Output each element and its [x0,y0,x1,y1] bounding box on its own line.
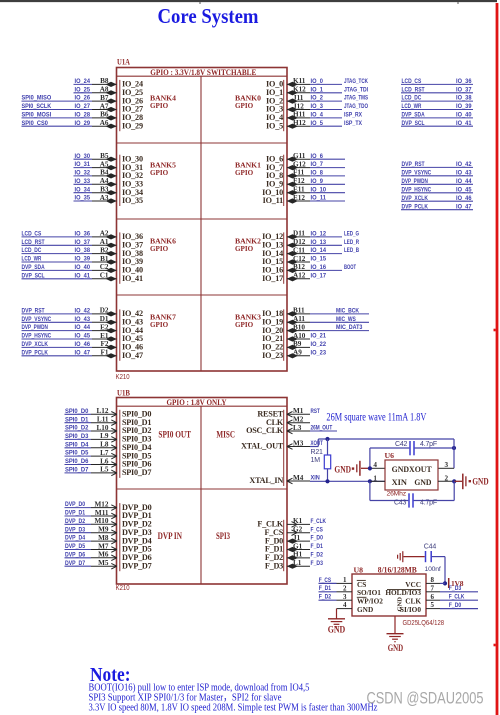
svg-text:L6: L6 [100,457,109,465]
svg-text:A11: A11 [293,315,305,323]
svg-text:M1: M1 [293,407,304,415]
svg-text:BANK4: BANK4 [150,94,176,102]
svg-text:M3: M3 [293,439,304,447]
svg-text:U8: U8 [354,566,364,575]
svg-text:DVP IN: DVP IN [158,531,183,541]
svg-text:B10: B10 [293,323,305,331]
svg-text:DVP_PCLK: DVP_PCLK [22,349,49,356]
svg-text:100nf: 100nf [425,566,441,573]
svg-text:U1B: U1B [117,389,131,398]
svg-text:IO_47: IO_47 [75,349,91,356]
svg-text:IO_38: IO_38 [456,95,472,102]
svg-text:B7: B7 [100,94,109,102]
svg-text:4: 4 [373,461,377,469]
svg-text:GND: GND [414,477,431,487]
svg-text:DVP_RST: DVP_RST [402,161,426,168]
svg-text:R21: R21 [311,449,324,456]
svg-text:F_D1: F_D1 [319,585,332,592]
svg-text:MIC_DAT3: MIC_DAT3 [336,324,363,331]
svg-text:B6: B6 [100,111,109,119]
svg-text:IO_37: IO_37 [456,86,472,93]
svg-text:L5: L5 [100,466,109,474]
svg-text:E12: E12 [293,194,305,202]
svg-text:RST: RST [311,408,321,415]
svg-text:1M: 1M [311,457,321,464]
svg-text:J11: J11 [293,94,304,102]
svg-text:B11: B11 [293,307,305,315]
svg-text:DVP_D5: DVP_D5 [65,543,85,550]
svg-text:IO_41: IO_41 [75,272,91,279]
svg-text:IO_17: IO_17 [311,272,327,279]
svg-text:LCD_DC: LCD_DC [402,95,422,102]
svg-text:LCD_RST: LCD_RST [22,239,46,246]
svg-text:IO_29: IO_29 [75,120,91,127]
svg-text:L9: L9 [100,432,109,440]
svg-text:GPIO: GPIO [150,102,169,110]
svg-text:IO_46: IO_46 [456,195,472,202]
svg-text:A5: A5 [100,160,109,168]
svg-text:DVP_SCL: DVP_SCL [22,272,45,279]
svg-text:J12: J12 [293,102,304,110]
svg-text:IO_37: IO_37 [75,239,91,246]
svg-text:IO_47: IO_47 [122,351,143,360]
svg-text:DVP_HSYNC: DVP_HSYNC [402,186,432,193]
svg-text:DVP_PWDN: DVP_PWDN [22,324,49,331]
svg-text:G11: G11 [293,152,306,160]
svg-text:4.7pF: 4.7pF [420,500,437,507]
svg-text:K11: K11 [293,77,306,85]
svg-text:IO_40: IO_40 [456,112,472,119]
svg-text:GPIO: GPIO [150,321,169,329]
svg-text:LCD_DC: LCD_DC [22,247,42,254]
svg-text:26M square wave 11mA 1.8V: 26M square wave 11mA 1.8V [326,412,427,424]
svg-text:IO_21: IO_21 [311,333,327,340]
svg-text:BANK2: BANK2 [235,237,261,245]
svg-text:A1: A1 [100,238,109,246]
svg-text:K210: K210 [116,374,130,381]
svg-text:F_D3: F_D3 [311,560,324,567]
svg-text:A12: A12 [293,272,306,280]
svg-text:DVP_PCLK: DVP_PCLK [402,203,429,210]
svg-text:C43: C43 [394,500,407,507]
svg-text:BANK0: BANK0 [235,94,261,102]
svg-text:JTAG_TDO: JTAG_TDO [344,103,368,110]
svg-text:B4: B4 [100,169,109,177]
svg-text:DVP_D7: DVP_D7 [122,561,152,570]
svg-text:C1: C1 [100,272,109,280]
svg-text:B5: B5 [100,152,109,160]
svg-text:G2: G2 [293,526,303,534]
svg-text:IO_31: IO_31 [75,161,91,168]
svg-text:L7: L7 [100,449,109,457]
svg-text:IO_17: IO_17 [262,274,283,283]
svg-text:IO_43: IO_43 [75,316,91,323]
svg-text:M2: M2 [293,416,304,424]
svg-text:IO_24: IO_24 [75,78,91,85]
svg-text:2: 2 [343,584,347,592]
svg-text:GND: GND [397,597,404,612]
svg-text:BANK1: BANK1 [235,161,261,169]
svg-text:IO_30: IO_30 [75,153,91,160]
svg-text:IO_35: IO_35 [75,195,91,202]
svg-text:IO_15: IO_15 [311,256,327,263]
svg-text:IO_39: IO_39 [456,103,472,110]
svg-text:SPI0_D6: SPI0_D6 [65,458,89,465]
svg-text:GPIO : 1.8V ONLY: GPIO : 1.8V ONLY [167,398,227,407]
svg-text:IO_41: IO_41 [122,274,143,283]
svg-text:IO_5: IO_5 [266,121,283,130]
svg-text:DVP_D7: DVP_D7 [65,560,85,567]
svg-text:F_CLK: F_CLK [449,594,465,601]
svg-text:DVP_VSYNC: DVP_VSYNC [402,169,432,176]
svg-text:G12: G12 [293,160,306,168]
svg-text:F_CLK: F_CLK [311,518,327,525]
svg-text:1: 1 [343,576,347,584]
svg-text:DVP_SDA: DVP_SDA [22,264,45,271]
svg-text:IO_27: IO_27 [75,103,91,110]
svg-text:D12: D12 [293,238,306,246]
svg-text:IO_40: IO_40 [75,264,91,271]
svg-text:E11: E11 [293,186,305,194]
svg-text:IO_23: IO_23 [262,351,283,360]
svg-text:IO_43: IO_43 [456,169,472,176]
svg-text:IO_36: IO_36 [75,231,91,238]
svg-text:IO_11: IO_11 [263,196,283,205]
svg-text:SPI0_D7: SPI0_D7 [65,467,89,474]
svg-text:JTAG_TCK: JTAG_TCK [344,78,368,85]
svg-text:DVP_XCLK: DVP_XCLK [402,195,429,202]
svg-text:GPIO: GPIO [150,169,169,177]
svg-text:GND: GND [472,477,488,487]
svg-text:B2: B2 [100,246,109,254]
svg-text:K1: K1 [293,517,303,525]
svg-text:SPI0_D4: SPI0_D4 [65,441,89,448]
svg-text:M9: M9 [98,526,109,534]
svg-text:IO_33: IO_33 [75,178,91,185]
svg-text:DVP_D2: DVP_D2 [65,518,85,525]
svg-text:M8: M8 [98,534,109,542]
svg-text:BANK7: BANK7 [150,313,176,321]
svg-text:F_CS: F_CS [319,577,332,584]
svg-text:SPI0_D7: SPI0_D7 [122,468,151,477]
svg-text:XIN: XIN [311,475,320,482]
svg-text:C11: C11 [293,246,305,254]
svg-text:F_D2: F_D2 [319,594,332,601]
svg-text:MIC_BCK: MIC_BCK [336,308,359,315]
svg-text:A9: A9 [293,349,302,357]
svg-text:SPI0_D2: SPI0_D2 [65,425,89,432]
svg-text:BOOT: BOOT [344,264,357,271]
svg-text:8/16/128MB: 8/16/128MB [378,565,417,575]
svg-text:XIN: XIN [392,477,408,487]
svg-text:BANK5: BANK5 [150,161,176,169]
svg-text:B3: B3 [100,186,109,194]
svg-text:5: 5 [431,601,435,609]
svg-text:IO_28: IO_28 [75,112,91,119]
svg-text:DVP_SCL: DVP_SCL [402,120,425,127]
svg-text:D11: D11 [293,230,305,238]
svg-text:IO_44: IO_44 [456,178,472,185]
svg-text:M4: M4 [293,474,304,482]
svg-text:IO_22: IO_22 [311,341,327,348]
svg-text:L3: L3 [293,424,302,432]
svg-text:4: 4 [343,601,347,609]
svg-text:K210: K210 [116,585,130,592]
svg-text:LCD_CS: LCD_CS [402,78,422,85]
svg-text:H11: H11 [293,111,306,119]
svg-text:GPIO: GPIO [150,245,169,253]
svg-text:F_D3: F_D3 [265,561,283,570]
svg-text:3: 3 [343,593,347,601]
svg-text:M10: M10 [95,517,109,525]
svg-text:F_D2: F_D2 [311,552,324,559]
svg-text:L8: L8 [100,441,109,449]
svg-text:DVP_HSYNC: DVP_HSYNC [22,333,52,340]
svg-text:F11: F11 [293,169,305,177]
svg-text:L11: L11 [97,416,109,424]
svg-text:SPI0_CS0: SPI0_CS0 [22,120,49,127]
svg-text:IO_46: IO_46 [75,341,91,348]
svg-text:DVP_D3: DVP_D3 [65,526,85,533]
svg-text:B1: B1 [100,255,109,263]
svg-text:GND: GND [334,465,351,475]
svg-text:GPIO: GPIO [235,245,254,253]
svg-text:L12: L12 [97,407,109,415]
svg-text:BANK3: BANK3 [235,313,261,321]
svg-text:A6: A6 [100,119,109,127]
svg-text:SPI0_D5: SPI0_D5 [65,450,89,457]
svg-text:B12: B12 [293,263,305,271]
svg-text:IO_35: IO_35 [122,196,143,205]
svg-text:ISP_RX: ISP_RX [344,112,362,119]
svg-text:GPIO : 3.3V/1.8V SWITCHABLE: GPIO : 3.3V/1.8V SWITCHABLE [150,68,256,77]
svg-text:DVP_D1: DVP_D1 [65,510,85,517]
svg-text:JTAG_TMS: JTAG_TMS [344,95,368,102]
svg-text:G1: G1 [293,542,303,550]
svg-text:A10: A10 [293,332,306,340]
svg-text:IO_47: IO_47 [456,203,472,210]
svg-text:B9: B9 [293,340,302,348]
svg-text:F12: F12 [293,177,305,185]
svg-text:F_D1: F_D1 [311,543,324,550]
svg-text:SPI0_MOSI: SPI0_MOSI [22,112,52,119]
svg-text:IO_25: IO_25 [75,86,91,93]
svg-text:XTAL_IN: XTAL_IN [249,476,283,485]
svg-text:E1: E1 [100,332,109,340]
svg-text:M6: M6 [98,551,109,559]
svg-text:F_D0: F_D0 [311,535,324,542]
svg-text:A2: A2 [100,230,109,238]
svg-text:SPI0_D0: SPI0_D0 [65,408,89,415]
svg-text:IO_42: IO_42 [456,161,472,168]
svg-text:3: 3 [445,461,449,469]
svg-text:JTAG_TDI: JTAG_TDI [344,86,368,93]
svg-text:BANK6: BANK6 [150,237,176,245]
svg-text:IO_44: IO_44 [75,324,91,331]
svg-text:LCD_WR: LCD_WR [402,103,422,110]
svg-text:MISC: MISC [216,430,235,440]
svg-text:D2: D2 [100,307,109,315]
svg-text:C12: C12 [293,255,306,263]
svg-text:A7: A7 [100,102,109,110]
svg-text:DVP_PWDN: DVP_PWDN [402,178,429,185]
svg-text:CSDN @SDAU2005: CSDN @SDAU2005 [367,690,484,708]
svg-text:IO_41: IO_41 [456,120,472,127]
svg-text:A8: A8 [100,86,109,94]
svg-text:GND: GND [328,626,346,636]
svg-text:F_D0: F_D0 [449,602,462,609]
svg-text:OSC_CLK: OSC_CLK [246,426,284,435]
svg-text:GNDXOUT: GNDXOUT [392,464,432,474]
svg-text:DVP_D6: DVP_D6 [65,551,85,558]
svg-text:F_D3: F_D3 [449,585,462,592]
svg-text:MIC_WS: MIC_WS [336,316,356,323]
svg-text:IO_36: IO_36 [456,78,472,85]
svg-text:C42: C42 [395,441,408,448]
svg-text:LCD_RST: LCD_RST [402,86,426,93]
svg-text:A4: A4 [100,177,109,185]
svg-text:7: 7 [431,584,435,592]
svg-text:LED_R: LED_R [344,239,359,246]
svg-text:3.3V IO speed 80M, 1.8V IO spe: 3.3V IO speed 80M, 1.8V IO speed 208M. S… [89,703,378,714]
svg-text:DVP_D0: DVP_D0 [65,501,85,508]
svg-text:J1: J1 [293,534,301,542]
svg-text:F_CS: F_CS [311,526,324,533]
svg-text:SPI0_SCLK: SPI0_SCLK [22,103,52,110]
svg-text:U6: U6 [385,451,395,460]
svg-text:LCD_CS: LCD_CS [22,231,42,238]
svg-text:GND: GND [357,605,373,614]
svg-text:LCD_WR: LCD_WR [22,256,42,263]
svg-text:L10: L10 [97,424,109,432]
svg-text:D1: D1 [100,315,109,323]
svg-text:IO_32: IO_32 [75,170,91,177]
svg-text:GPIO: GPIO [235,321,254,329]
svg-text:GPIO: GPIO [235,102,254,110]
svg-text:SPI0_D3: SPI0_D3 [65,433,89,440]
svg-text:K12: K12 [293,86,306,94]
svg-text:LED_B: LED_B [344,247,359,254]
svg-text:IO_23: IO_23 [311,349,327,356]
svg-text:XTAL_OUT: XTAL_OUT [241,442,284,451]
svg-text:M12: M12 [95,500,109,508]
svg-text:IO_26: IO_26 [75,95,91,102]
svg-text:A3: A3 [100,194,109,202]
svg-text:SPI0 OUT: SPI0 OUT [158,430,191,440]
svg-text:GND: GND [388,644,403,654]
svg-text:SPI0_MISO: SPI0_MISO [22,95,52,102]
svg-text:IO_39: IO_39 [75,256,91,263]
svg-text:L1: L1 [293,559,302,567]
svg-text:IO_45: IO_45 [75,333,91,340]
svg-text:IO_42: IO_42 [75,308,91,315]
svg-text:6: 6 [431,593,435,601]
svg-text:IO_34: IO_34 [75,186,91,193]
svg-text:26Mhz: 26Mhz [387,490,407,497]
svg-text:8: 8 [431,576,435,584]
svg-text:B8: B8 [100,77,109,85]
svg-text:DVP_SDA: DVP_SDA [402,112,425,119]
svg-text:GD25LQ64/128: GD25LQ64/128 [403,618,445,627]
svg-text:SPI0_D1: SPI0_D1 [65,416,89,423]
svg-text:4.7pF: 4.7pF [420,441,437,448]
svg-text:IO_45: IO_45 [456,186,472,193]
svg-text:C44: C44 [424,544,437,551]
svg-text:Core System: Core System [158,4,259,28]
svg-text:LED_G: LED_G [344,231,359,238]
svg-text:SPI3: SPI3 [216,531,230,541]
svg-text:C2: C2 [100,263,109,271]
svg-text:M11: M11 [95,509,109,517]
svg-text:DVP_RST: DVP_RST [22,308,46,315]
svg-text:F1: F1 [101,349,109,357]
svg-text:IO_29: IO_29 [122,121,143,130]
svg-text:IO_38: IO_38 [75,247,91,254]
svg-text:GPIO: GPIO [235,169,254,177]
svg-text:E2: E2 [100,323,109,331]
svg-text:H12: H12 [293,119,306,127]
svg-text:DVP_XCLK: DVP_XCLK [22,341,49,348]
svg-text:F2: F2 [101,340,109,348]
svg-text:M5: M5 [98,559,109,567]
svg-text:U1A: U1A [117,58,130,67]
svg-text:H1: H1 [293,551,303,559]
svg-text:ISP_TX: ISP_TX [344,120,362,127]
svg-text:DVP_VSYNC: DVP_VSYNC [22,316,52,323]
svg-text:DVP_D4: DVP_D4 [65,535,85,542]
svg-text:M7: M7 [98,542,109,550]
